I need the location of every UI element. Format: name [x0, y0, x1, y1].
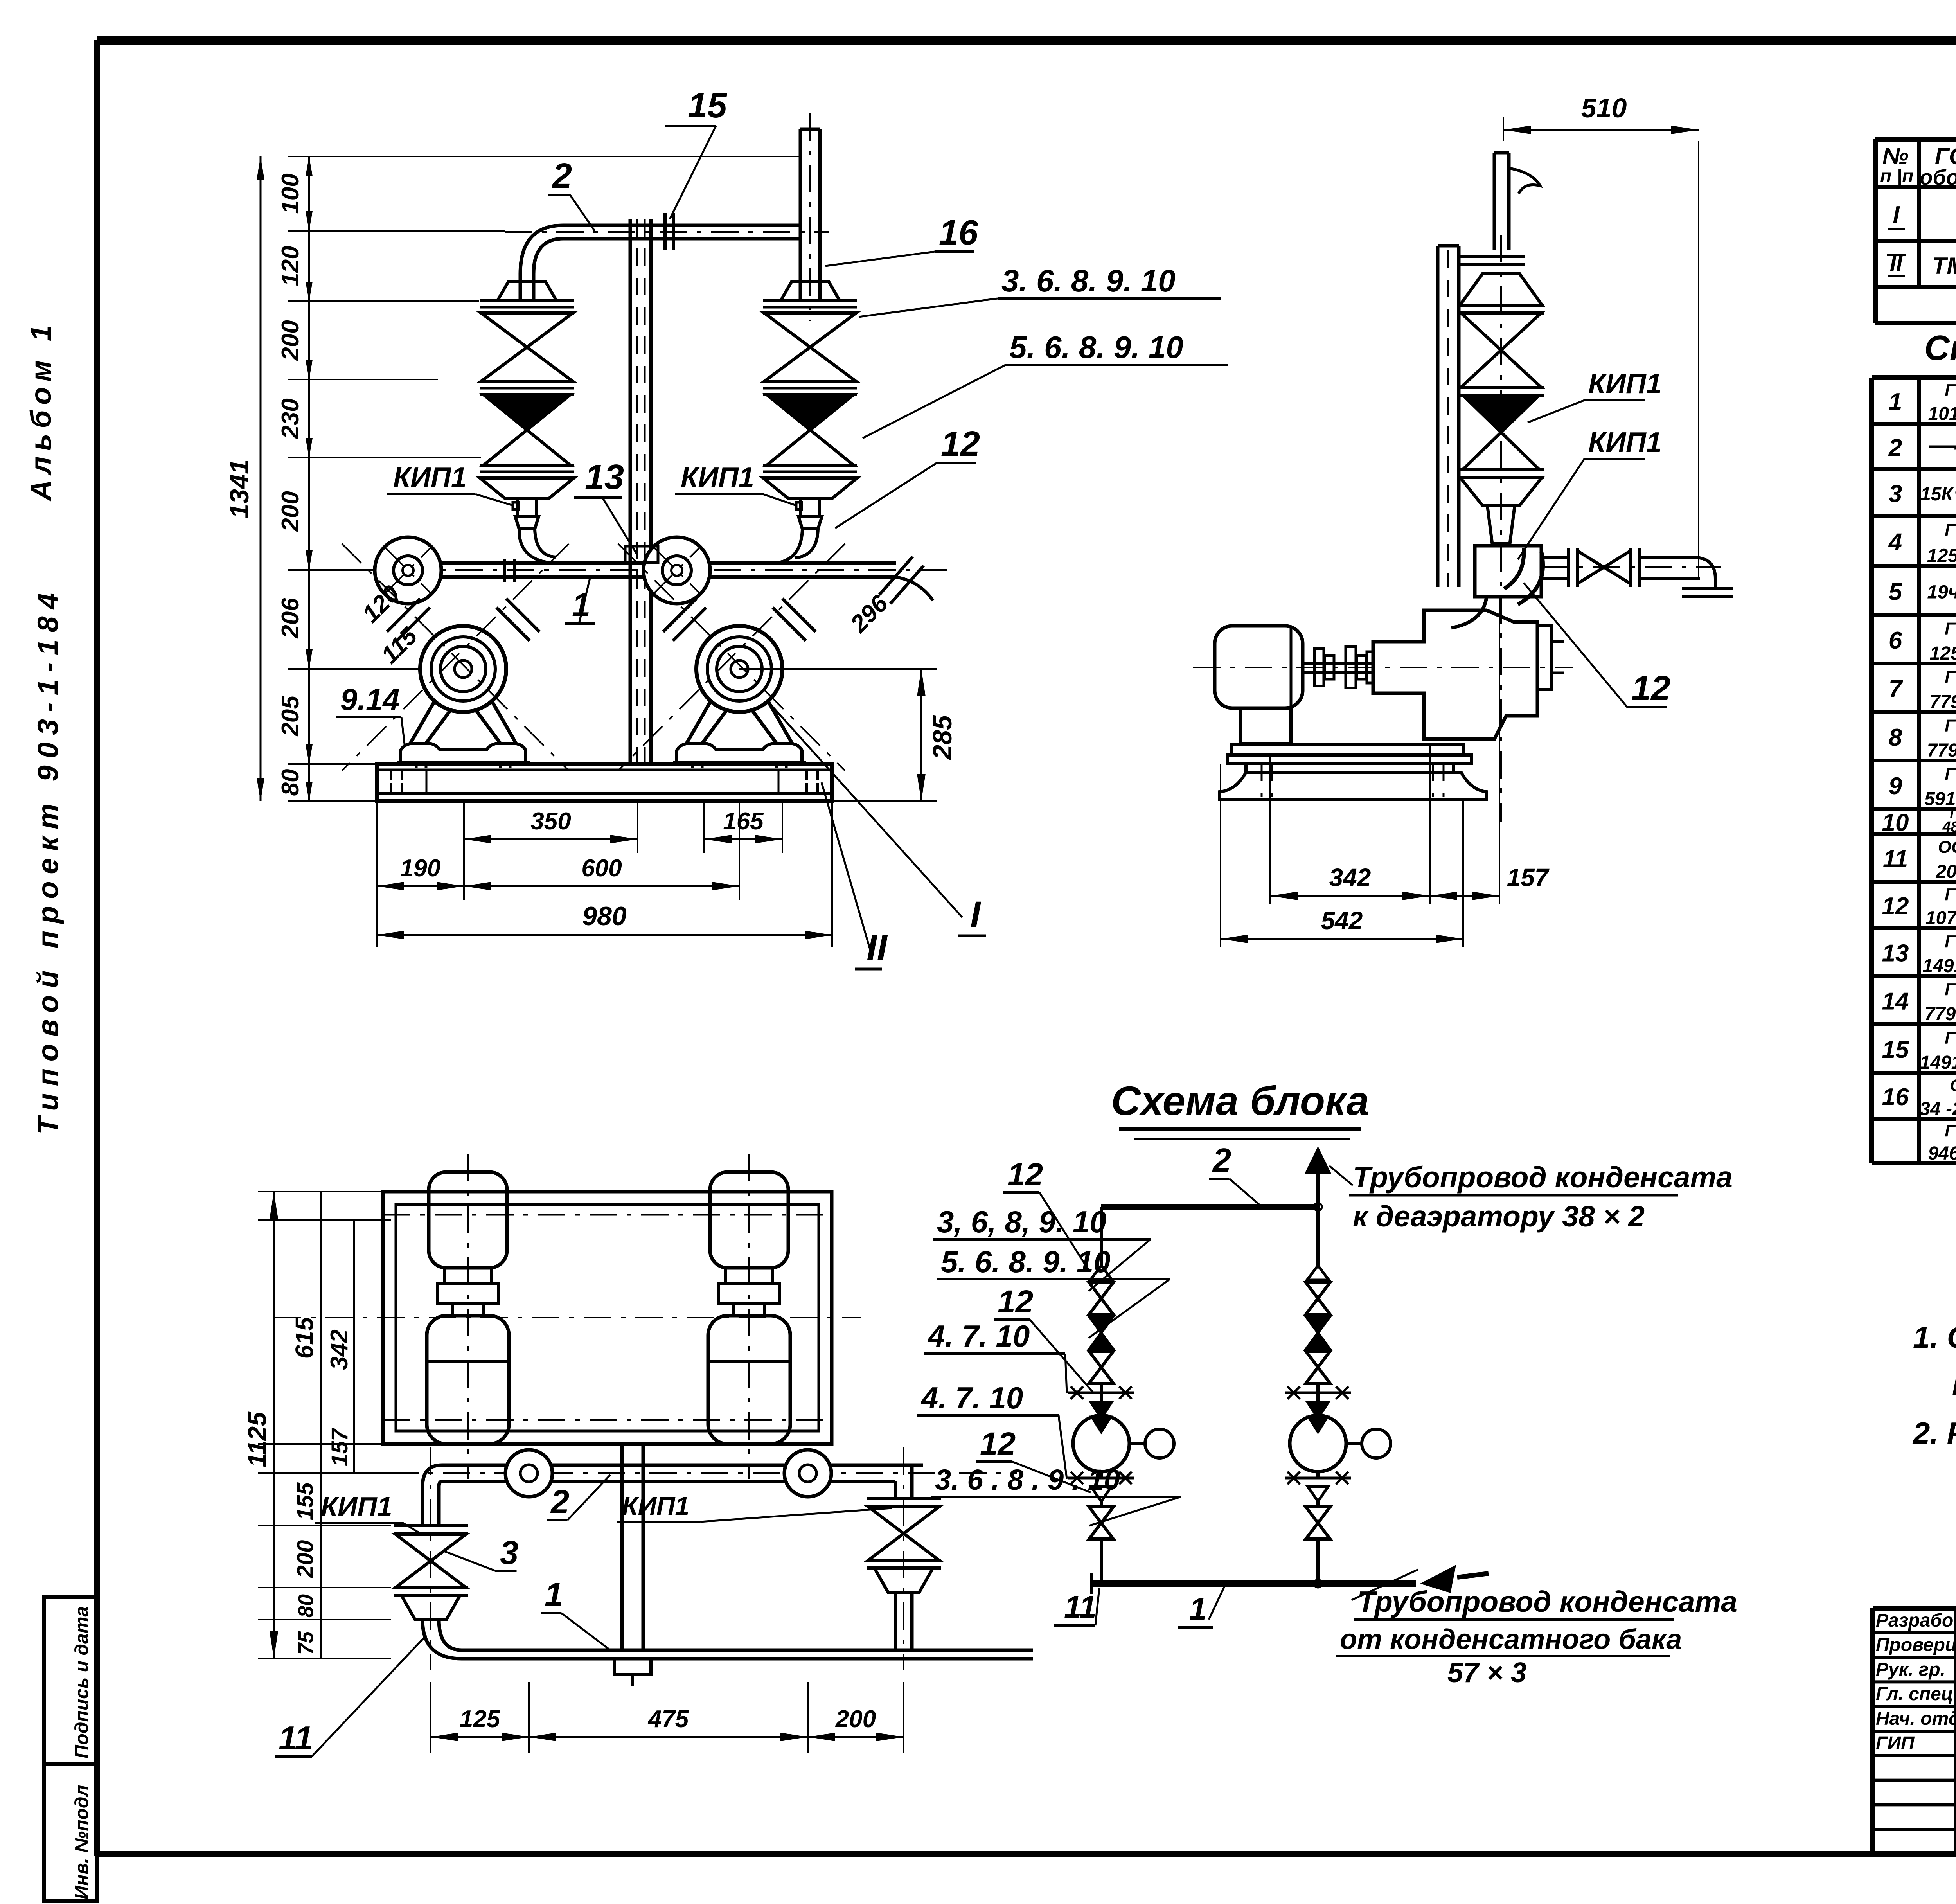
svg-text:по ОСТ 34. 202. - 73.: по ОСТ 34. 202. - 73. [1952, 1367, 1956, 1401]
svg-text:16: 16 [1882, 1084, 1909, 1111]
svg-text:11: 11 [1883, 846, 1908, 873]
svg-text:9467 - 75: 9467 - 75 [1928, 1143, 1956, 1164]
svg-text:7798 - 70*: 7798 - 70* [1924, 1004, 1956, 1025]
svg-text:2: 2 [1888, 435, 1902, 462]
svg-text:14: 14 [1882, 988, 1909, 1015]
svg-text:1255-67*: 1255-67* [1930, 643, 1956, 664]
svg-text:7: 7 [1889, 676, 1903, 703]
svg-text:165: 165 [723, 808, 764, 835]
svg-text:1341: 1341 [225, 459, 254, 518]
svg-text:12: 12 [998, 1284, 1033, 1320]
svg-text:10: 10 [1882, 809, 1909, 836]
svg-text:3, 6, 8, 9. 10: 3, 6, 8, 9. 10 [937, 1205, 1107, 1239]
svg-text:Рук. гр.: Рук. гр. [1876, 1659, 1945, 1680]
svg-text:2. Рабочие параметры:: 2. Рабочие параметры: Р = 4 кгс/см², t =… [1912, 1416, 1956, 1450]
svg-text:15: 15 [688, 86, 728, 125]
svg-text:80: 80 [277, 769, 304, 796]
svg-text:I: I [1893, 201, 1900, 228]
svg-text:Нач. отд: Нач. отд [1876, 1708, 1956, 1729]
svg-text:120: 120 [277, 246, 304, 286]
svg-text:510: 510 [1581, 93, 1627, 123]
svg-text:ГОСТ: ГОСТ [1945, 619, 1956, 638]
svg-text:КИП1: КИП1 [622, 1491, 689, 1520]
svg-text:75: 75 [294, 1631, 318, 1655]
svg-text:7798 -70*: 7798 -70* [1927, 740, 1956, 761]
svg-text:350: 350 [530, 808, 571, 835]
svg-text:- II -: - II - [1954, 439, 1956, 457]
svg-text:200: 200 [277, 320, 304, 361]
svg-text:10104-76: 10104-76 [1928, 404, 1956, 424]
svg-text:34 -209 -76: 34 -209 -76 [1920, 1099, 1956, 1120]
svg-text:Альбом 1: Альбом 1 [25, 320, 57, 502]
svg-text:КИП1: КИП1 [1588, 368, 1662, 399]
svg-text:13: 13 [1882, 940, 1909, 967]
svg-text:3. 6. 8. 9. 10: 3. 6. 8. 9. 10 [1001, 263, 1176, 298]
svg-text:Инв. №подл: Инв. №подл [72, 1785, 92, 1900]
svg-text:7798-70*: 7798-70* [1930, 692, 1956, 712]
svg-text:125: 125 [460, 1706, 501, 1733]
svg-text:ГОСТ: ГОСТ [1945, 885, 1956, 904]
svg-text:16: 16 [939, 213, 978, 252]
svg-text:ОСТ: ОСТ [1950, 1076, 1956, 1095]
svg-text:12: 12 [1882, 893, 1909, 920]
svg-text:ГОСТ: ГОСТ [1945, 716, 1956, 735]
svg-text:Проверил: Проверил [1876, 1635, 1956, 1656]
svg-text:206: 206 [277, 598, 304, 639]
svg-text:6: 6 [1889, 627, 1902, 654]
svg-text:155: 155 [293, 1482, 318, 1521]
svg-text:КИП1: КИП1 [681, 462, 754, 493]
svg-text:5. 6. 8. 9. 10: 5. 6. 8. 9. 10 [941, 1244, 1111, 1279]
svg-text:4. 7. 10: 4. 7. 10 [920, 1381, 1023, 1415]
svg-text:200: 200 [293, 1540, 318, 1579]
svg-text:1: 1 [1889, 388, 1902, 415]
svg-text:2: 2 [550, 1483, 569, 1521]
svg-text:15КЧ19п 1: 15КЧ19п 1 [1920, 484, 1956, 505]
svg-text:от конденсатного бака: от конденсатного бака [1340, 1624, 1682, 1655]
svg-text:1125: 1125 [243, 1411, 271, 1467]
svg-text:980: 980 [582, 901, 627, 931]
svg-text:12: 12 [1007, 1157, 1043, 1192]
svg-text:1: 1 [1189, 1591, 1207, 1626]
svg-text:14911 - 69*: 14911 - 69* [1920, 1052, 1956, 1073]
svg-text:ГОСТ: ГОСТ [1945, 1028, 1956, 1048]
svg-text:200: 200 [835, 1706, 876, 1733]
svg-text:13: 13 [585, 458, 624, 497]
svg-text:12: 12 [1631, 669, 1670, 708]
svg-text:1255- 67*: 1255- 67* [1927, 546, 1956, 566]
svg-text:157: 157 [1507, 863, 1550, 892]
svg-text:ГОСТ: ГОСТ [1945, 980, 1956, 999]
svg-text:к деаэратору 38 × 2: к деаэратору 38 × 2 [1353, 1200, 1645, 1233]
svg-text:Подпись и дата: Подпись и дата [72, 1606, 92, 1758]
svg-text:4. 7. 10: 4. 7. 10 [927, 1319, 1030, 1353]
svg-text:ГИП: ГИП [1876, 1733, 1915, 1754]
svg-text:230: 230 [277, 398, 304, 439]
svg-text:600: 600 [581, 855, 622, 882]
svg-text:ГОСТ: ГОСТ [1945, 765, 1956, 784]
svg-text:15: 15 [1882, 1036, 1909, 1063]
svg-text:57 × 3: 57 × 3 [1447, 1657, 1526, 1688]
svg-text:615: 615 [290, 1316, 318, 1359]
svg-text:2: 2 [1212, 1142, 1231, 1179]
svg-text:3: 3 [500, 1534, 518, 1571]
svg-text:I: I [970, 894, 982, 935]
svg-text:9: 9 [1889, 773, 1902, 800]
svg-text:342: 342 [1329, 863, 1371, 892]
svg-text:10704- 76: 10704- 76 [1925, 908, 1956, 929]
svg-text:204- 73: 204- 73 [1936, 861, 1956, 882]
svg-text:КИП1: КИП1 [393, 462, 467, 493]
svg-text:285: 285 [928, 715, 957, 761]
svg-text:Типовой проект 903-1-184: Типовой проект 903-1-184 [32, 586, 64, 1134]
svg-text:Трубопровод конденсата: Трубопровод конденсата [1357, 1585, 1737, 1618]
svg-text:№: № [1882, 143, 1908, 169]
svg-text:ГОСТ: ГОСТ [1945, 668, 1956, 687]
svg-text:ГОСТ: ГОСТ [1945, 932, 1956, 951]
svg-text:157: 157 [327, 1428, 352, 1467]
svg-text:4: 4 [1888, 529, 1902, 556]
svg-text:542: 542 [1321, 906, 1363, 935]
svg-text:Разработ: Разработ [1876, 1610, 1956, 1631]
svg-text:100: 100 [277, 173, 304, 214]
svg-text:1: 1 [545, 1576, 563, 1613]
svg-text:1. Сварные стыковые со: 1. Сварные стыковые соединения трубопров… [1913, 1320, 1956, 1354]
svg-text:190: 190 [400, 855, 440, 882]
svg-text:Спецификация трубопроводов: Спецификация трубопроводов и арматуры [1924, 329, 1956, 368]
svg-text:ГОСТ: ГОСТ [1945, 521, 1956, 540]
svg-text:обознач.: обознач. [1920, 165, 1956, 189]
svg-text:Трубопровод конденсата: Трубопровод конденсата [1353, 1161, 1733, 1194]
svg-text:ГОСТ: ГОСТ [1945, 381, 1956, 400]
svg-text:КИП1: КИП1 [1588, 427, 1662, 458]
svg-text:475: 475 [647, 1706, 689, 1733]
svg-text:ОСТ 34: ОСТ 34 [1938, 838, 1956, 857]
svg-text:ГОСТ: ГОСТ [1945, 1121, 1956, 1140]
svg-text:200: 200 [277, 491, 304, 532]
svg-text:5. 6. 8. 9. 10: 5. 6. 8. 9. 10 [1009, 330, 1183, 365]
svg-text:Гл. спец.: Гл. спец. [1876, 1684, 1956, 1704]
svg-text:481- 71: 481- 71 [1942, 819, 1956, 835]
svg-text:11: 11 [1064, 1589, 1097, 1624]
svg-text:Схема блока: Схема блока [1111, 1078, 1369, 1124]
svg-text:9.14: 9.14 [340, 682, 400, 717]
svg-text:3. 6 . 8 . 9 . 10: 3. 6 . 8 . 9 . 10 [935, 1464, 1120, 1496]
svg-text:3: 3 [1889, 480, 1902, 507]
svg-text:14911 -69*: 14911 -69* [1922, 956, 1956, 976]
svg-text:12: 12 [941, 424, 980, 464]
svg-text:342: 342 [326, 1329, 353, 1370]
svg-text:ТМ-43: ТМ-43 [1932, 253, 1956, 279]
svg-text:КИП1: КИП1 [321, 1491, 392, 1522]
svg-text:19ч 16бр: 19ч 16бр [1927, 582, 1956, 603]
svg-text:205: 205 [277, 695, 304, 737]
svg-text:п |п: п |п [1880, 166, 1913, 187]
svg-text:2: 2 [552, 156, 572, 196]
svg-text:11: 11 [279, 1720, 313, 1757]
svg-text:8: 8 [1889, 724, 1902, 751]
svg-text:80: 80 [294, 1594, 318, 1618]
svg-text:5: 5 [1889, 579, 1903, 606]
svg-text:12: 12 [980, 1426, 1016, 1462]
